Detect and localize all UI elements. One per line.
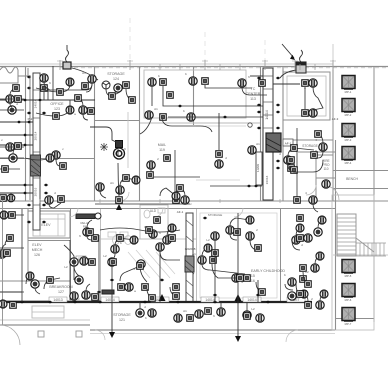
svg-text:16X16: 16X16	[265, 175, 269, 184]
wire w8	[150, 169, 152, 172]
arrow a1	[247, 185, 252, 188]
wire left feeder y110	[0, 109, 24, 111]
room mech right outline	[332, 195, 374, 330]
wire feeder y135	[0, 134, 33, 136]
wire elevmech riser1	[21, 209, 23, 302]
svg-text:MP-6: MP-6	[345, 298, 352, 302]
equipment panel MP-6	[342, 284, 355, 297]
wall v x140	[139, 67, 141, 201]
wall h y240 elev	[28, 240, 70, 242]
junction box J7	[160, 114, 167, 121]
wall h y158 office bottom	[0, 158, 95, 160]
svg-text:MP-5: MP-5	[345, 274, 352, 278]
svg-text:14X14: 14X14	[265, 110, 269, 119]
wire x22	[160, 188, 176, 196]
svg-text:126: 126	[34, 253, 40, 257]
fixture F7	[9, 154, 17, 162]
arrow d9	[44, 192, 49, 195]
arrow d122a	[17, 121, 22, 124]
restroom fixture wc	[144, 210, 150, 218]
junction box J13	[154, 217, 161, 224]
door arc corridor d	[120, 192, 129, 201]
wall h y180 light	[196, 179, 240, 181]
wire y13	[115, 238, 134, 246]
junction box J29	[210, 257, 217, 264]
arrow a8	[110, 279, 115, 282]
wire y10	[10, 88, 16, 95]
svg-text:AF-3: AF-3	[332, 117, 339, 121]
wire x24	[49, 203, 61, 208]
junction box JL2	[15, 96, 22, 103]
junction box J27	[142, 284, 149, 291]
bus main	[0, 301, 312, 303]
fixture F31	[70, 258, 78, 266]
wall top dashed gridline	[60, 67, 388, 69]
svg-text:L2: L2	[64, 265, 68, 269]
wire riser storage121	[98, 235, 100, 302]
wire x11	[120, 266, 140, 281]
panel P3 hatch	[185, 260, 194, 274]
wire y20	[296, 228, 300, 236]
junction box J16	[294, 197, 301, 204]
wire corridor run	[95, 203, 190, 205]
wire w2	[151, 86, 153, 106]
panel P3 dark section	[185, 256, 194, 272]
svg-text:STORAGE: STORAGE	[302, 144, 318, 148]
fixture F4	[6, 95, 14, 103]
junction box J35	[234, 229, 241, 236]
wire w26	[214, 240, 216, 302]
junction box J9	[259, 80, 266, 87]
wire left feeder y292	[0, 291, 24, 293]
thermostat circle	[248, 123, 252, 127]
fixture F30	[0, 250, 6, 258]
svg-text:119: 119	[159, 148, 165, 152]
fixture F43	[288, 292, 296, 300]
door arc bottom mid	[95, 330, 105, 340]
gridline v x265	[264, 40, 266, 66]
wire storage109 drop	[296, 128, 298, 198]
bus arrows	[20, 301, 25, 304]
wall bottom outer b	[90, 329, 335, 331]
fixture F29	[181, 196, 189, 204]
fixture G12	[320, 290, 328, 298]
wire x26	[86, 284, 90, 291]
wire w28	[257, 280, 259, 302]
junction box J42	[300, 276, 307, 283]
wire y18	[320, 294, 324, 301]
wire left feeder y135	[0, 134, 24, 136]
wall v x95	[94, 67, 96, 201]
bus drop 1	[111, 302, 113, 334]
arrow d2	[38, 99, 43, 102]
wire x23	[230, 218, 250, 226]
fixture F39	[198, 256, 206, 264]
junction box J44	[146, 227, 153, 234]
fixture F21	[319, 143, 327, 151]
junction box K2	[53, 113, 60, 120]
wall corridor bottom	[0, 208, 335, 210]
gridline vertical right	[332, 44, 334, 68]
wire w1	[44, 82, 92, 90]
fixture G8	[168, 224, 176, 232]
junction box J11	[164, 155, 171, 162]
fixture F40	[232, 274, 240, 282]
svg-text:MP-2: MP-2	[345, 113, 352, 117]
gridline vertical left	[129, 18, 131, 66]
wall v x316	[315, 150, 317, 201]
junction box J37	[205, 308, 212, 315]
fixture F33	[111, 245, 119, 253]
svg-text:20X16: 20X16	[34, 187, 38, 196]
fixture F49	[174, 314, 182, 322]
door jamb square b	[76, 331, 82, 337]
fixture F10	[148, 78, 156, 86]
duct arrows	[257, 77, 262, 80]
svg-text:MAIL: MAIL	[158, 143, 166, 147]
svg-text:113: 113	[250, 97, 256, 101]
fixture F47	[136, 309, 144, 317]
wall v x374 outer right	[373, 67, 375, 322]
junction box K1	[57, 89, 64, 96]
junction box J22	[92, 235, 99, 242]
arrow a9	[178, 105, 183, 108]
fixture F54	[195, 310, 203, 318]
svg-text:1-EM1: 1-EM1	[256, 163, 260, 172]
wire elevmech riser2	[69, 240, 71, 300]
panel P1 dark section	[31, 155, 41, 176]
register bar	[76, 214, 95, 219]
arrow a2	[254, 185, 259, 188]
wire left feeder y248	[0, 247, 24, 249]
junction box J24	[92, 294, 99, 301]
wire w4	[205, 85, 252, 88]
fixture F13	[187, 113, 195, 121]
fixture F6	[6, 143, 14, 151]
panel LP-1 dark	[266, 133, 281, 152]
fixture F32	[31, 280, 39, 288]
equipment panel MP-7	[342, 308, 355, 321]
wire w20	[285, 284, 293, 290]
junction box K5	[167, 92, 174, 99]
junction box J10	[216, 151, 223, 158]
wire riser to fan	[72, 68, 98, 80]
fixture FL1	[0, 211, 8, 219]
wire w10	[118, 163, 119, 196]
fixture F2	[88, 75, 96, 83]
wire y8	[43, 92, 45, 100]
fixture F5	[8, 106, 16, 114]
junction box J23	[89, 259, 96, 266]
svg-text:MP-1: MP-1	[345, 90, 352, 94]
svg-text:MECH: MECH	[32, 248, 43, 252]
junction box J14	[116, 197, 123, 204]
wire x16	[296, 284, 300, 294]
arrow d3	[11, 99, 16, 102]
svg-text:120/208: 120/208	[185, 247, 196, 251]
arrow strip y205	[27, 204, 32, 207]
fixture F20	[284, 156, 292, 164]
svg-text:A1: A1	[192, 252, 196, 256]
wire x2	[36, 110, 70, 116]
junction box J33	[58, 196, 65, 203]
svg-text:P-2: P-2	[28, 117, 33, 121]
wire left feeder y158	[0, 157, 24, 159]
svg-text:BENCH: BENCH	[346, 177, 358, 181]
room top right inner	[287, 76, 326, 116]
wire w22	[250, 240, 256, 250]
wire x27	[87, 236, 92, 240]
fixture F44	[316, 301, 324, 309]
wire w32	[69, 100, 71, 110]
wire x7	[140, 117, 152, 134]
wire x17	[303, 272, 308, 284]
svg-text:STORAGE: STORAGE	[113, 313, 131, 317]
wire left feeder y215	[0, 214, 24, 216]
wall h y281 elev mech	[0, 280, 70, 282]
wire x19	[246, 302, 248, 311]
svg-text:127: 127	[58, 290, 64, 294]
wire y14	[167, 228, 172, 236]
wire y4	[318, 134, 323, 143]
junction box J6	[160, 79, 167, 86]
junction box J45	[302, 80, 309, 87]
fixture F50	[292, 236, 300, 244]
door arc corridor b	[154, 208, 163, 217]
arrow d5	[23, 144, 28, 147]
fixture F23	[309, 196, 317, 204]
restroom fixture lav	[158, 208, 165, 213]
wire duct right	[273, 83, 300, 85]
room elev cab	[33, 214, 65, 236]
wire antenna feed	[280, 70, 296, 78]
wall h y126 light	[196, 125, 246, 127]
arrow strip y222	[27, 221, 32, 224]
junction box J20	[297, 235, 304, 242]
casework bottom-left	[32, 306, 64, 318]
wall corridor top	[0, 200, 388, 202]
junction box K3	[109, 93, 116, 100]
wire y16	[26, 276, 30, 284]
wire x3	[25, 158, 50, 160]
junction box K17	[15, 143, 22, 150]
junction box K18	[13, 85, 20, 92]
wall h y188 bench bottom	[333, 188, 388, 190]
wall h y152 storage109	[298, 151, 335, 153]
arrow a4	[213, 294, 218, 297]
fixture F8	[52, 151, 60, 159]
junction box K4	[129, 97, 136, 104]
svg-text:EARLY CHILDHOOD: EARLY CHILDHOOD	[251, 269, 285, 273]
junction box K23	[47, 277, 54, 284]
arrow d4	[23, 134, 28, 137]
wire mail drop	[174, 150, 176, 200]
wire w31	[47, 88, 49, 100]
wire w11	[56, 159, 60, 166]
wall v x100 lower	[100, 209, 102, 302]
junction box K14	[291, 145, 298, 152]
junction box J17	[311, 152, 318, 159]
fixture F22	[314, 228, 322, 236]
wire y12	[120, 178, 136, 186]
junction box JL1	[9, 212, 16, 219]
equipment panel MP-3	[342, 124, 355, 137]
wall bottom outer c	[335, 318, 374, 320]
ticks corridor	[39, 199, 41, 203]
svg-text:L2: L2	[103, 254, 107, 258]
wall h y255 right	[333, 254, 388, 256]
wire w12	[83, 114, 88, 120]
wire w33	[100, 191, 106, 198]
wire feeder y100	[0, 99, 95, 101]
junction box J30	[212, 250, 219, 257]
wall break squiggle upper-left	[0, 67, 18, 83]
panel strip left ticks	[33, 90, 40, 205]
junction box K16	[7, 235, 14, 242]
arrow a3	[203, 217, 208, 220]
restroom fixtures light	[113, 236, 120, 245]
equipment panel MP-2	[342, 99, 355, 112]
fixture G5	[246, 216, 254, 224]
fixture F24	[304, 234, 312, 242]
svg-text:OFFICE: OFFICE	[50, 102, 64, 106]
wire strip parallel	[29, 75, 31, 200]
wire y6	[13, 146, 18, 154]
wall h y239 storage121	[100, 238, 196, 240]
fixture F1	[40, 74, 48, 82]
wall v x280 lower	[280, 209, 282, 302]
wire left feeder y147	[0, 146, 24, 148]
room storage121 wall	[100, 301, 196, 303]
junction box J15	[173, 197, 180, 204]
wire w3	[163, 86, 263, 106]
fixture F28	[116, 186, 124, 194]
wire x1	[36, 84, 70, 92]
drop arrow ald	[116, 204, 122, 210]
fixture F9	[96, 183, 104, 191]
junction box J38	[244, 313, 251, 320]
fixture F41	[288, 278, 296, 286]
box antenna	[296, 62, 306, 73]
svg-text:ELEV: ELEV	[32, 243, 42, 247]
door arc corridor c	[234, 208, 243, 217]
wall v x283	[282, 67, 284, 201]
wall bottom parapet	[0, 319, 90, 321]
svg-text:14X14: 14X14	[205, 298, 214, 302]
arrow d122b	[27, 121, 32, 124]
fixture G15	[318, 216, 326, 224]
wire x20	[139, 302, 141, 309]
fixture F27	[211, 232, 219, 240]
junction box K11	[259, 289, 266, 296]
fixture F55	[256, 314, 264, 322]
junction box J8	[202, 78, 209, 85]
label storage122 box	[76, 256, 86, 260]
svg-text:MP-7: MP-7	[345, 322, 352, 326]
wire left feeder y99	[0, 98, 24, 100]
fixture stack big	[114, 148, 125, 159]
wire feeder y169	[0, 168, 20, 170]
junction box K19	[75, 95, 82, 102]
wall v x333 right	[332, 67, 334, 201]
fixture F56	[80, 257, 88, 265]
fixture F45	[217, 308, 225, 316]
svg-text:L2: L2	[144, 225, 148, 229]
arrow a5	[256, 294, 261, 297]
bus duct labels	[49, 297, 67, 302]
fixture F48	[148, 309, 156, 317]
svg-text:L2: L2	[206, 238, 210, 242]
wire w23	[313, 204, 318, 212]
wall h y123	[140, 122, 260, 124]
door arc firepro	[306, 185, 316, 195]
junction box J43	[300, 291, 307, 298]
wall top outer	[0, 66, 388, 68]
arrow a10	[223, 116, 228, 119]
exhaust fan	[102, 81, 110, 89]
junction box J39	[187, 315, 194, 322]
wire w24	[111, 262, 113, 302]
junction box K10	[237, 275, 244, 282]
wire y15	[202, 248, 208, 256]
wall v x70 lower	[70, 209, 72, 302]
junction box J18	[288, 157, 295, 164]
wall h y170 bench top	[333, 170, 388, 172]
fixture F36	[156, 243, 164, 251]
fixture F38	[125, 283, 133, 291]
panel P1 crosshatch	[31, 159, 40, 176]
box riser top left	[63, 62, 71, 69]
fixture G10	[26, 272, 34, 280]
fixture FL3	[0, 300, 7, 308]
wire w7	[117, 149, 119, 156]
fixture G9	[204, 244, 212, 252]
svg-text:A1: A1	[110, 181, 114, 185]
fixture G3	[46, 154, 54, 162]
wire w18	[160, 251, 180, 260]
wall v x196 lower	[196, 209, 198, 302]
staircase	[337, 214, 356, 256]
arrow strip y88	[27, 87, 32, 90]
fixture F26	[246, 232, 254, 240]
arrow a7	[236, 279, 241, 282]
junction box J48	[169, 235, 176, 242]
bus riser tri 2	[235, 294, 242, 301]
wall h y140 storage top right	[283, 139, 333, 141]
junction box J36	[297, 215, 304, 222]
panel strip center marks	[186, 220, 193, 298]
wire w6	[242, 87, 267, 95]
door arc corridor a	[69, 208, 78, 217]
svg-text:A1: A1	[256, 142, 260, 146]
junction box K12	[297, 291, 304, 298]
junction box J31	[244, 275, 251, 282]
fixture G7	[130, 236, 138, 244]
svg-text:ELEV: ELEV	[41, 223, 51, 227]
junction box K7	[137, 263, 144, 270]
fixture G6	[132, 176, 140, 184]
svg-text:AF-1: AF-1	[177, 210, 184, 214]
wire y5	[5, 238, 10, 245]
door arc bench	[325, 186, 339, 200]
fixture F16	[309, 109, 317, 117]
wire x5	[126, 89, 132, 100]
floor hatch diagonal	[128, 250, 175, 280]
junction box K15	[315, 131, 322, 138]
junction box left y169	[2, 166, 9, 173]
svg-text:STORAGE: STORAGE	[107, 72, 125, 76]
svg-text:L2: L2	[251, 307, 255, 311]
